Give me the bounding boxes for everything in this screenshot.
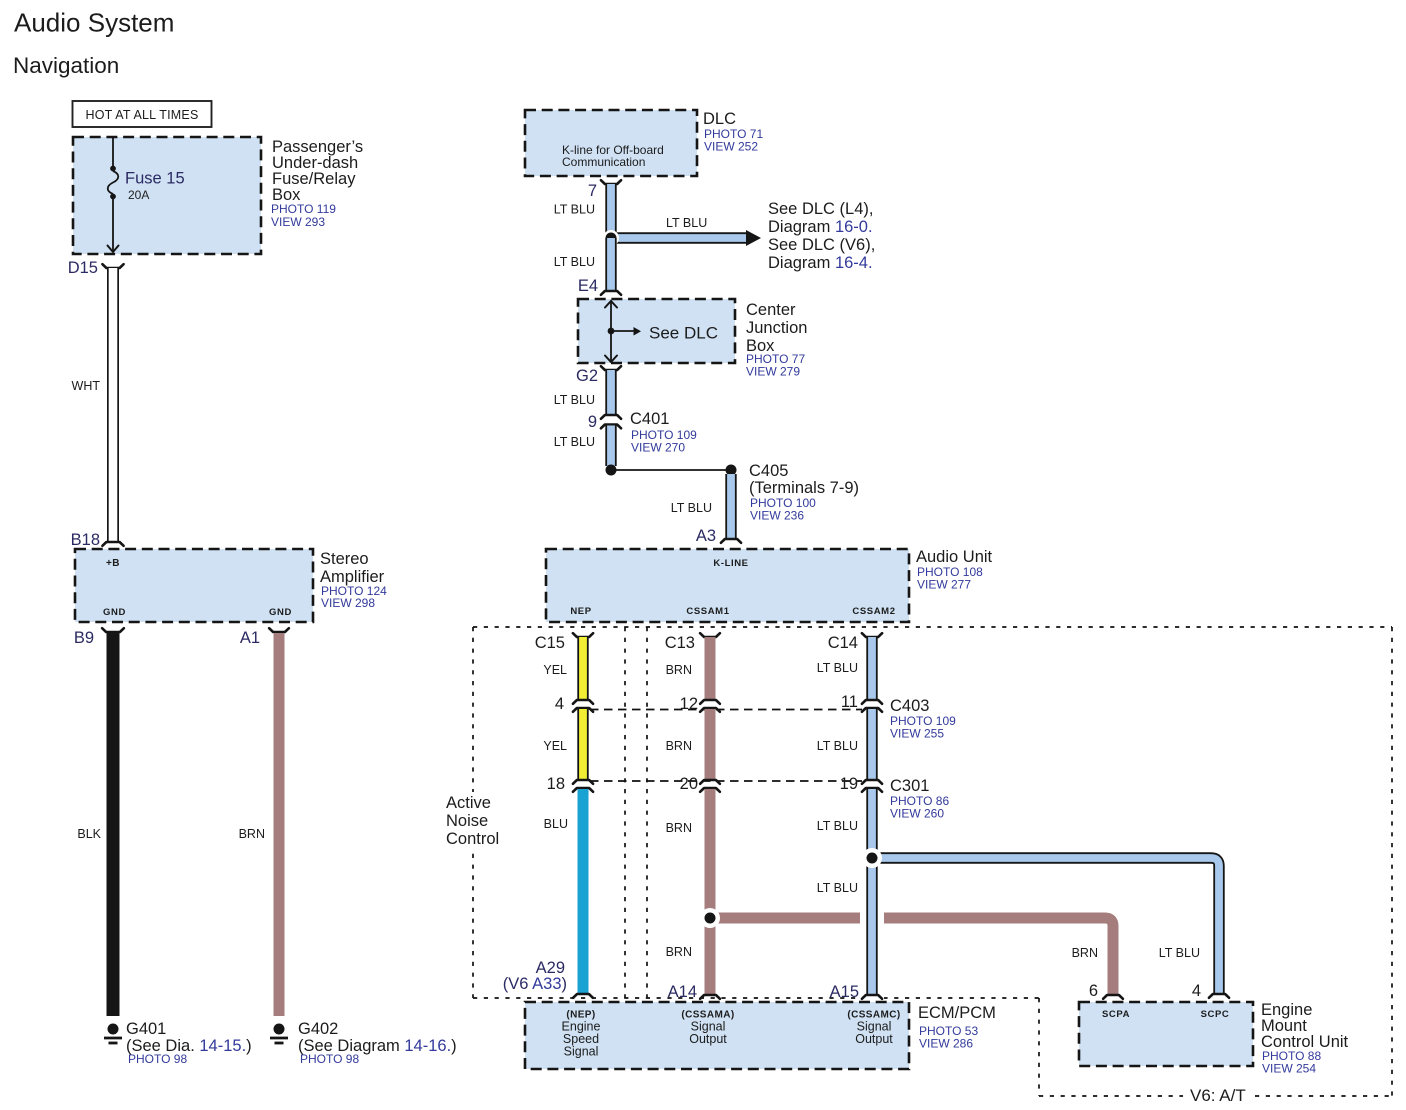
- ECM CSSAMA pin text: [681, 1010, 734, 1047]
- wire label LT BLU above A3: [671, 501, 712, 515]
- svg-text:CSSAM2: CSSAM2: [852, 606, 895, 617]
- center junction box: [578, 299, 735, 363]
- svg-text:4: 4: [555, 695, 564, 713]
- svg-text:A15: A15: [830, 983, 859, 1001]
- wire BRN C13 to pin12: [700, 633, 720, 704]
- title Audio System: [14, 8, 174, 38]
- connector C405 label: [749, 462, 859, 523]
- wire WHT fuse to amplifier: [102, 264, 123, 546]
- connector C401 label: [630, 410, 697, 455]
- wire label LT BLU below junction: [554, 255, 595, 269]
- region border left of CSSAM columns: [646, 627, 648, 998]
- node A29: [503, 959, 567, 993]
- node B18: [71, 531, 100, 549]
- svg-text:C405: C405: [749, 462, 788, 480]
- wire label LT BLU horizontal: [666, 216, 707, 230]
- node A1: [240, 629, 260, 647]
- svg-text:BLK: BLK: [77, 827, 101, 841]
- wire LT BLU C401 to junction: [605, 426, 616, 467]
- audio unit box: [546, 549, 909, 622]
- svg-text:BRN: BRN: [666, 739, 692, 753]
- V6 A/T label: [1190, 1086, 1246, 1105]
- svg-text:ECM/PCM: ECM/PCM: [918, 1004, 996, 1022]
- node A15: [830, 983, 859, 1001]
- pin 19: [840, 775, 858, 793]
- wire label BRN 2: [666, 739, 692, 753]
- Active Noise Control region border top: [473, 626, 1392, 628]
- svg-text:VIEW 236: VIEW 236: [750, 509, 804, 523]
- wire label LT BLU col 3: [817, 819, 858, 833]
- wire BLK B9 to G401: [102, 628, 124, 1016]
- svg-text:See DLC: See DLC: [649, 324, 718, 343]
- ground G401 label: [126, 1020, 252, 1066]
- wire label LT BLU col 4: [817, 881, 858, 895]
- V6 A/T region border bottom: [1039, 1095, 1392, 1097]
- Active Noise Control region border left: [472, 627, 474, 998]
- wire label LT BLU col 1: [817, 661, 858, 675]
- passenger under-dash fuse/relay box: [73, 137, 261, 254]
- svg-text:11: 11: [841, 693, 858, 711]
- stereo amplifier name: [320, 550, 387, 610]
- node C15: [535, 634, 565, 652]
- svg-text:WHT: WHT: [72, 379, 101, 393]
- svg-text:6: 6: [1089, 982, 1098, 1000]
- DLC box: [525, 110, 697, 176]
- svg-text:Junction: Junction: [746, 319, 807, 337]
- svg-text:BRN: BRN: [666, 663, 692, 677]
- EMCU pin names: [1102, 1009, 1229, 1020]
- svg-text:SCPC: SCPC: [1201, 1009, 1230, 1020]
- svg-text:B18: B18: [71, 531, 100, 549]
- svg-text:Noise: Noise: [446, 812, 488, 830]
- active noise control label: [441, 792, 503, 848]
- svg-text:20A: 20A: [128, 188, 149, 202]
- Active Noise Control region border right of NEP column: [624, 627, 626, 998]
- ground G401 symbol: [104, 1024, 122, 1044]
- wire LT BLU junction to E4: [601, 238, 621, 295]
- svg-text:A14: A14: [668, 983, 697, 1001]
- pin 4: [555, 695, 564, 713]
- connector C301 label: [890, 777, 949, 821]
- connector row dashed line pins 18/20/19: [590, 780, 862, 782]
- svg-text:VIEW 255: VIEW 255: [890, 727, 944, 741]
- svg-text:Audio Unit: Audio Unit: [916, 548, 993, 566]
- wire LT BLU DLC to junction: [601, 180, 621, 238]
- svg-text:HOT AT ALL TIMES: HOT AT ALL TIMES: [86, 108, 199, 122]
- ground G402 symbol: [270, 1024, 288, 1044]
- svg-text:A3: A3: [696, 527, 716, 545]
- amplifier pin labels: [103, 558, 292, 618]
- svg-text:BRN: BRN: [666, 821, 692, 835]
- svg-text:VIEW 277: VIEW 277: [917, 578, 971, 592]
- region border right: [1391, 627, 1393, 1096]
- wire label BLU: [544, 817, 568, 831]
- svg-text:VIEW 254: VIEW 254: [1262, 1062, 1316, 1076]
- junction node below C401: [606, 465, 617, 476]
- wire LT BLU branch to SCPC: [870, 858, 1229, 998]
- ECM NEP pin text: [562, 1010, 601, 1059]
- svg-text:GND: GND: [269, 607, 292, 618]
- connector row dashed line pins 4/12/11: [590, 709, 862, 711]
- node A3: [696, 527, 716, 545]
- svg-text:LT BLU: LT BLU: [666, 216, 707, 230]
- svg-text:Active: Active: [446, 794, 491, 812]
- wire label LT BLU below G2: [554, 393, 595, 407]
- pin 6: [1089, 982, 1098, 1000]
- wire YEL pin4 to pin18: [573, 708, 593, 784]
- wire label BRN 1: [666, 663, 692, 677]
- svg-text:C403: C403: [890, 697, 929, 715]
- svg-text:LT BLU: LT BLU: [817, 819, 858, 833]
- svg-text:+B: +B: [106, 558, 120, 569]
- svg-text:LT BLU: LT BLU: [554, 255, 595, 269]
- svg-text:LT BLU: LT BLU: [554, 435, 595, 449]
- svg-text:Output: Output: [689, 1032, 727, 1046]
- svg-text:VIEW 260: VIEW 260: [890, 807, 944, 821]
- wire BRN A1 to G402: [269, 628, 289, 1016]
- node B9: [74, 629, 94, 647]
- svg-text:Diagram 16-4.: Diagram 16-4.: [768, 254, 873, 272]
- stereo amplifier box: [75, 549, 313, 622]
- svg-text:G2: G2: [576, 367, 598, 385]
- pin 9: [588, 413, 597, 431]
- DLC box inner text: [562, 143, 664, 169]
- node C14: [828, 634, 858, 652]
- svg-text:Control: Control: [446, 830, 499, 848]
- svg-text:D15: D15: [68, 259, 98, 277]
- wire link to C405: [611, 469, 731, 471]
- wire label WHT: [72, 379, 101, 393]
- wire LT BLU C14 to pin11: [862, 633, 882, 704]
- connector C403 label: [890, 697, 956, 741]
- pin 4 SCPC: [1192, 982, 1201, 1000]
- ECM/PCM box: [525, 1002, 909, 1069]
- wire label BRN 3: [666, 821, 692, 835]
- svg-text:LT BLU: LT BLU: [817, 881, 858, 895]
- wire LT BLU branch to see-DLC arrow: [611, 230, 761, 246]
- ground G402 label: [298, 1020, 457, 1066]
- wire BRN pin20 to A14: [700, 788, 720, 999]
- wire LT BLU pin11 to pin19: [862, 708, 882, 784]
- audio unit pin names: [570, 558, 895, 617]
- wire BRN pin12 to pin20: [700, 708, 720, 784]
- svg-text:C401: C401: [630, 410, 669, 428]
- svg-text:CSSAM1: CSSAM1: [686, 606, 729, 617]
- svg-text:Fuse 15: Fuse 15: [125, 170, 185, 188]
- svg-text:C13: C13: [665, 634, 695, 652]
- engine mount control unit box: [1079, 1002, 1253, 1066]
- svg-text:7: 7: [588, 182, 597, 200]
- wire BRN branch to engine mount control unit: [710, 918, 1123, 999]
- wire label BRN: [239, 827, 265, 841]
- DLC name: [703, 110, 763, 154]
- svg-text:VIEW 252: VIEW 252: [704, 140, 758, 154]
- fuse F15 symbol: [108, 137, 119, 252]
- white halo for CSSAM2 wire: [860, 789, 884, 1000]
- wire YEL C15 to pin4: [573, 633, 593, 704]
- svg-text:VIEW 293: VIEW 293: [271, 215, 325, 229]
- V6 A/T region border left: [1038, 998, 1040, 1096]
- svg-text:V6: A/T: V6: A/T: [1190, 1086, 1246, 1105]
- wire label LT BLU below C401: [554, 435, 595, 449]
- svg-text:PHOTO 119: PHOTO 119: [271, 202, 336, 216]
- svg-text:LT BLU: LT BLU: [554, 393, 595, 407]
- svg-text:NEP: NEP: [570, 606, 591, 617]
- pin 20: [680, 775, 698, 793]
- svg-text:LT BLU: LT BLU: [1159, 946, 1200, 960]
- svg-text:12: 12: [680, 695, 698, 713]
- wire BLU pin18 to A29: [573, 788, 593, 998]
- svg-text:DLC: DLC: [703, 110, 736, 128]
- wire label BRN 4: [666, 945, 692, 959]
- svg-text:Communication: Communication: [562, 155, 645, 169]
- svg-text:VIEW 298: VIEW 298: [321, 596, 375, 610]
- svg-text:Stereo: Stereo: [320, 550, 369, 568]
- wire LT BLU pin19 to A15: [862, 788, 882, 999]
- wire LT BLU C405 to A3: [721, 474, 741, 543]
- HOT AT ALL TIMES box: [73, 101, 212, 127]
- pin 7: [588, 182, 597, 200]
- svg-text:B9: B9: [74, 629, 94, 647]
- junction node C405: [726, 465, 737, 476]
- svg-text:See DLC (V6),: See DLC (V6),: [768, 236, 875, 254]
- EMCU name: [1261, 1001, 1349, 1076]
- wire label LT BLU col 2: [817, 739, 858, 753]
- svg-text:K-LINE: K-LINE: [713, 558, 748, 569]
- svg-text:Audio System: Audio System: [14, 8, 174, 38]
- svg-text:E4: E4: [578, 277, 598, 295]
- node A14: [668, 983, 697, 1001]
- svg-text:VIEW 270: VIEW 270: [631, 441, 685, 455]
- pin 11: [841, 693, 858, 711]
- svg-text:9: 9: [588, 413, 597, 431]
- svg-text:Diagram 16-0.: Diagram 16-0.: [768, 218, 873, 236]
- svg-text:LT BLU: LT BLU: [817, 661, 858, 675]
- see DLC reference text: [768, 200, 875, 272]
- svg-text:SCPA: SCPA: [1102, 1009, 1130, 1020]
- svg-text:VIEW 286: VIEW 286: [919, 1037, 973, 1051]
- ECM CSSAMC pin text: [847, 1010, 900, 1047]
- subtitle Navigation: [13, 53, 119, 78]
- ECM/PCM name: [918, 1004, 996, 1051]
- svg-text:YEL: YEL: [543, 739, 567, 753]
- wire LT BLU G2 to C401: [601, 366, 621, 414]
- node C13: [665, 634, 695, 652]
- svg-text:A1: A1: [240, 629, 260, 647]
- svg-text:Center: Center: [746, 301, 796, 319]
- svg-text:(Terminals 7-9): (Terminals 7-9): [749, 479, 859, 497]
- svg-text:GND: GND: [103, 607, 126, 618]
- svg-text:PHOTO 98: PHOTO 98: [128, 1052, 187, 1066]
- svg-text:G401: G401: [126, 1020, 166, 1038]
- svg-text:C15: C15: [535, 634, 565, 652]
- region border bottom: [473, 997, 1039, 999]
- connector C401 break: [601, 415, 621, 428]
- svg-text:4: 4: [1192, 982, 1201, 1000]
- junction node BRN branch: [700, 908, 720, 928]
- svg-text:PHOTO 98: PHOTO 98: [300, 1052, 359, 1066]
- junction node on DLC wire: [603, 230, 619, 246]
- wire label LT BLU branch: [1159, 946, 1200, 960]
- svg-text:C301: C301: [890, 777, 929, 795]
- svg-text:Output: Output: [855, 1032, 893, 1046]
- wire label YEL 2: [543, 739, 567, 753]
- CJB see DLC text: [649, 324, 718, 343]
- svg-text:BLU: BLU: [544, 817, 568, 831]
- node D15: [68, 259, 98, 277]
- svg-text:LT BLU: LT BLU: [817, 739, 858, 753]
- svg-text:BRN: BRN: [1072, 946, 1098, 960]
- svg-text:BRN: BRN: [239, 827, 265, 841]
- wire label BLK: [77, 827, 101, 841]
- svg-text:20: 20: [680, 775, 698, 793]
- svg-text:LT BLU: LT BLU: [554, 203, 595, 217]
- wire label YEL 1: [543, 663, 567, 677]
- wire label LT BLU: [554, 203, 595, 217]
- junction node CSSAM2 branch: [862, 848, 882, 868]
- svg-text:See DLC (L4),: See DLC (L4),: [768, 200, 873, 218]
- svg-text:YEL: YEL: [543, 663, 567, 677]
- node G2: [576, 367, 598, 385]
- pin 12: [680, 695, 698, 713]
- CJB internal arrows: [605, 301, 641, 362]
- fuse 15 label: [125, 170, 185, 203]
- audio unit name: [916, 548, 993, 592]
- wire label BRN branch: [1072, 946, 1098, 960]
- svg-text:LT BLU: LT BLU: [671, 501, 712, 515]
- svg-text:C14: C14: [828, 634, 858, 652]
- svg-text:(V6 A33): (V6 A33): [503, 975, 567, 993]
- svg-text:G402: G402: [298, 1020, 338, 1038]
- node E4: [578, 277, 598, 295]
- pin 18: [547, 775, 565, 793]
- svg-text:BRN: BRN: [666, 945, 692, 959]
- svg-text:Signal: Signal: [564, 1045, 599, 1059]
- svg-text:Navigation: Navigation: [13, 53, 119, 78]
- svg-text:19: 19: [840, 775, 858, 793]
- fuse box name: [271, 138, 363, 229]
- CJB name: [746, 301, 807, 379]
- svg-text:VIEW 279: VIEW 279: [746, 365, 800, 379]
- svg-text:18: 18: [547, 775, 565, 793]
